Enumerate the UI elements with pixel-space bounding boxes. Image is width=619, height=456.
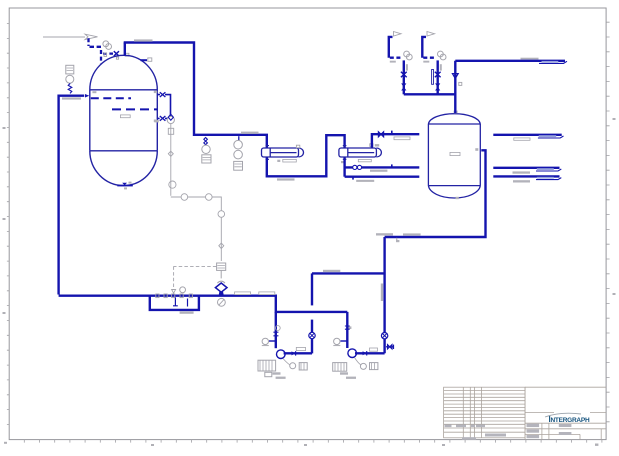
V1 bottom nozzle (117, 183, 133, 186)
instrument stack B (234, 140, 243, 170)
wire: line A drop (403, 60, 405, 94)
pump P2 suction (346, 312, 348, 348)
P1 gauge (269, 340, 276, 342)
V1 tag box (120, 115, 130, 118)
control valve FV (215, 263, 227, 306)
V2 right side lines with off-page arrows (493, 134, 561, 136)
pump P1 suction (275, 312, 277, 348)
node: small gray squares near vessel top (104, 53, 129, 59)
vessel V2 (428, 114, 480, 198)
P2 gauge (341, 340, 348, 342)
node: off-page flag top-left (43, 34, 98, 39)
top right: incoming line A (394, 32, 402, 37)
small circles fitting (353, 165, 362, 169)
wire: top product line with off-page arrow (455, 60, 565, 62)
wire: E2 outlet down, tee to V2 (two lines) (343, 158, 345, 177)
wire: vertical 384.6 down to pumps discharge header (383, 237, 385, 353)
heat exchanger E1 (262, 146, 304, 160)
wire: dashed vapor line from flag (89, 38, 114, 63)
wire: cross line y273.4 (312, 272, 385, 274)
label (134, 39, 153, 41)
heat exchanger E2 (339, 146, 382, 160)
check valve on P2 discharge (363, 351, 367, 355)
pump P1 (277, 350, 286, 359)
check valve on P1 discharge (292, 351, 296, 355)
P1 base/motor boxes (258, 359, 307, 377)
PSV assembly on feed (66, 65, 74, 83)
valve (closed) on dashed line (114, 51, 119, 56)
V1 small vent nozzle on dome (141, 59, 148, 61)
ruler ticks left (7, 24, 9, 425)
level bridle on V1 (157, 95, 170, 117)
svg-text:INTERGRAPH: INTERGRAPH (549, 415, 590, 424)
valve X on line A (401, 72, 407, 78)
check valve on V2 riser (452, 74, 458, 79)
wire: main bottom line (59, 296, 348, 312)
wire: E1 outlet to E2 (267, 135, 345, 176)
signal chain from LT down (168, 124, 224, 261)
title block text bars (445, 424, 572, 440)
bypass U loop (150, 296, 199, 310)
wire: pump1 discharge riser x312 (311, 273, 313, 305)
title block (444, 387, 606, 439)
valve X on line B (435, 72, 441, 78)
wire: line B drop (437, 60, 439, 94)
wire: feed line into V1 (59, 96, 85, 295)
pump P2 (348, 349, 357, 358)
vessel V1 (90, 55, 158, 185)
fittings row on main line (156, 294, 193, 298)
check valve on line A (401, 83, 406, 90)
wire: E2 shell out top to V2 (372, 134, 419, 147)
valve gate on that line (378, 132, 383, 137)
margin zone letters (3, 118, 616, 446)
V1 nozzle marks (92, 91, 157, 190)
valve diamond on overhead line (204, 138, 208, 145)
signal arrow to line (174, 266, 217, 289)
instrument stack A (202, 145, 211, 163)
drain valve stub (386, 346, 393, 348)
P2 base/motor boxes (333, 358, 378, 372)
ruler ticks right (606, 22, 609, 422)
top right: incoming line B (427, 32, 435, 37)
ruler ticks bottom (24, 440, 602, 443)
check valve on line B (435, 83, 440, 90)
Intergraph logo (545, 413, 590, 424)
wire: V1 top nozzle riser (124, 42, 126, 55)
wire: V2 right nozzle down to y237 across to pump header (385, 150, 486, 237)
wire: overhead line to HX1 (124, 43, 267, 148)
wire: header to V2 top (404, 61, 456, 113)
valve ball on vertical (381, 333, 387, 339)
labels right of valve (235, 292, 251, 295)
slim spacer rect (432, 70, 434, 85)
instrument PI double circle (103, 41, 112, 50)
level dashes inside V1 (91, 98, 157, 109)
